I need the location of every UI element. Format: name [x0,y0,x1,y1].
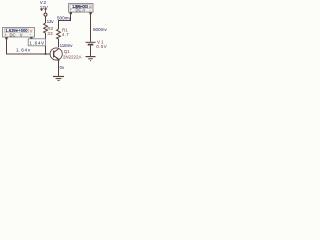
svg-text:500mv: 500mv [93,27,107,32]
svg-text:DC A: DC A [76,8,86,13]
svg-text:+: + [4,32,7,37]
svg-text:1.64V: 1.64V [29,41,45,46]
svg-text:118mv: 118mv [60,43,74,48]
svg-text:0.5V: 0.5V [96,44,106,49]
svg-text:500mv: 500mv [57,15,71,20]
svg-text:DC: DC [10,32,16,37]
svg-text:33: 33 [47,31,53,36]
svg-text:12v: 12v [47,19,55,24]
svg-text:2N2222A: 2N2222A [63,55,82,60]
svg-text:4.7: 4.7 [62,32,69,37]
svg-text:V: V [20,32,23,37]
svg-text:Q1: Q1 [64,49,70,54]
svg-text:12V: 12V [40,5,49,10]
svg-text:1.64v: 1.64v [16,48,31,53]
svg-text:0v: 0v [60,65,65,70]
